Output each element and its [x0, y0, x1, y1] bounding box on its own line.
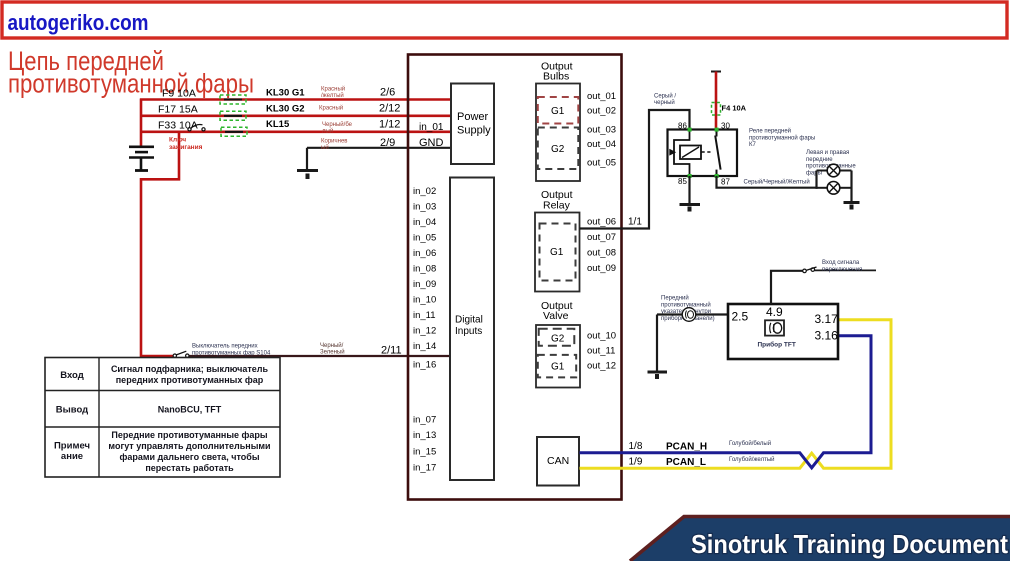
wire colour label Серый/черный	[654, 93, 676, 107]
svg-text:1/1: 1/1	[628, 217, 642, 228]
pin label in_17	[413, 463, 436, 474]
pin label in_02	[413, 186, 436, 197]
wire colour label Красный/желтый	[321, 86, 345, 100]
wire battery positive vertical	[140, 99, 143, 147]
svg-text:Зеленый: Зеленый	[320, 349, 345, 356]
svg-text:NanoBCU, TFT: NanoBCU, TFT	[158, 405, 222, 415]
Digital Inputs block	[450, 178, 494, 481]
svg-text:Relay: Relay	[543, 200, 571, 212]
fuse F33 10A	[158, 120, 247, 137]
group G1 valve	[538, 355, 576, 378]
TFT instrument box	[728, 304, 838, 359]
pin label in_01	[419, 122, 444, 133]
lamp right fog	[827, 182, 840, 195]
svg-text:in_03: in_03	[413, 202, 436, 213]
NanoBCU main box	[408, 55, 622, 500]
svg-text:Valve: Valve	[543, 310, 569, 322]
svg-text:in_06: in_06	[413, 248, 436, 259]
pin label in_05	[413, 233, 436, 244]
group G1 bulbs	[538, 97, 579, 124]
svg-text:in_13: in_13	[413, 430, 436, 441]
wire PCAN_H blue	[580, 336, 872, 468]
label relay K7	[749, 128, 815, 149]
Output Relay group	[535, 189, 580, 292]
Output Valve group	[536, 300, 580, 388]
svg-text:in_09: in_09	[413, 279, 436, 290]
site title autogeriko.com	[8, 10, 149, 35]
pin number 1/1	[628, 217, 642, 228]
svg-text:out_09: out_09	[587, 263, 616, 274]
wire TFT 2.5 to indicator and ground	[657, 315, 728, 373]
CAN block	[537, 437, 579, 486]
pin label in_04	[413, 217, 436, 228]
battery G	[129, 147, 154, 171]
svg-text:PCAN_L: PCAN_L	[666, 457, 706, 468]
pin number 1/8	[629, 441, 643, 452]
svg-text:in_11: in_11	[413, 310, 436, 321]
svg-text:Красный: Красный	[321, 86, 345, 93]
net label KL30 G2	[266, 104, 305, 115]
svg-text:ый: ый	[321, 144, 329, 151]
svg-text:Левая и правая: Левая и правая	[806, 150, 849, 156]
svg-text:in_15: in_15	[413, 447, 436, 458]
label switch signal	[822, 260, 862, 273]
pin label out_12	[587, 361, 616, 372]
svg-text:in_07: in_07	[413, 415, 436, 426]
group G1 relay	[540, 224, 576, 281]
pin label in_16	[413, 360, 436, 371]
svg-text:G1: G1	[551, 106, 565, 117]
svg-text:CAN: CAN	[547, 455, 569, 467]
svg-text:3.16: 3.16	[815, 329, 839, 343]
wire colour label Черный/белый	[322, 121, 353, 134]
svg-text:лый: лый	[322, 127, 333, 134]
svg-text:Сигнал подфарника; выключатель: Сигнал подфарника; выключатель	[111, 364, 269, 374]
fuse F9 10A	[162, 88, 246, 105]
wire KL15 (ignition feed)	[140, 131, 451, 134]
svg-text:передних противотуманных фар: передних противотуманных фар	[116, 375, 264, 385]
svg-text:Inputs: Inputs	[455, 326, 482, 337]
svg-text:переключения: переключения	[822, 267, 862, 273]
pin label in_11	[413, 310, 436, 321]
svg-text:30: 30	[721, 122, 730, 131]
table row Примечание	[54, 430, 271, 473]
svg-text:F9 10A: F9 10A	[162, 88, 196, 100]
ignition key switch on KL15	[188, 125, 205, 131]
svg-text:in_08: in_08	[413, 264, 436, 275]
group G2 valve	[539, 329, 575, 346]
indicator lamp fog	[682, 308, 696, 322]
svg-text:out_01: out_01	[587, 91, 616, 102]
svg-text:2/11: 2/11	[381, 345, 402, 357]
svg-text:out_04: out_04	[587, 139, 616, 150]
wire colour label Серый/Черный/Желтый	[744, 179, 810, 186]
wire left vertical feed to S104	[140, 178, 143, 357]
pin number 2/9	[380, 137, 395, 149]
svg-text:Ключ: Ключ	[169, 137, 186, 144]
pin label out_06	[587, 217, 616, 228]
svg-text:фарами дальнего света, чтобы: фарами дальнего света, чтобы	[119, 452, 259, 462]
wire colour label Черный/Зеленый	[320, 342, 345, 356]
relay pin 85	[678, 174, 692, 186]
svg-text:in_17: in_17	[413, 463, 436, 474]
svg-text:out_08: out_08	[587, 248, 616, 259]
svg-text:autogeriko.com: autogeriko.com	[8, 10, 149, 35]
svg-text:могут управлять дополнительным: могут управлять дополнительными	[108, 441, 270, 451]
svg-text:противотуманный: противотуманный	[661, 301, 711, 308]
ground (GND wire)	[297, 171, 318, 180]
net label PCAN_L	[666, 457, 706, 468]
svg-text:Коричнев: Коричнев	[321, 139, 347, 145]
svg-text:out_03: out_03	[587, 125, 616, 136]
svg-text:G2: G2	[551, 334, 565, 345]
svg-text:Power: Power	[457, 111, 489, 123]
svg-text:/желтый: /желтый	[321, 92, 344, 99]
svg-text:F33 10A: F33 10A	[158, 120, 198, 132]
pin label out_11	[587, 346, 615, 357]
pin label GND	[419, 137, 444, 149]
relay coil branch	[669, 130, 689, 177]
svg-text:Вывод: Вывод	[56, 405, 88, 416]
pin label out_05	[587, 158, 616, 169]
svg-text:передние: передние	[806, 157, 833, 163]
svg-text:in_02: in_02	[413, 186, 436, 197]
svg-text:2/6: 2/6	[380, 87, 395, 99]
wire ignition jog from KL15 down to switch feed	[141, 132, 179, 180]
svg-text:1/8: 1/8	[629, 441, 643, 452]
svg-text:Серый /: Серый /	[654, 93, 676, 100]
svg-text:in_01: in_01	[419, 122, 444, 133]
wire colour label Красный	[319, 105, 343, 112]
svg-text:4.9: 4.9	[766, 305, 783, 319]
svg-text:in_16: in_16	[413, 360, 436, 371]
wire lamps to ground	[850, 171, 852, 203]
pin number 1/9	[629, 457, 643, 468]
wire PCAN_L yellow	[580, 320, 892, 468]
relay pin 30	[715, 122, 731, 132]
wire lamp junction	[817, 171, 852, 189]
relay contact blade	[715, 131, 720, 175]
svg-text:out_12: out_12	[587, 361, 616, 372]
svg-text:2.5: 2.5	[732, 310, 749, 324]
Output Bulbs group	[536, 61, 580, 182]
svg-text:GND: GND	[419, 137, 444, 149]
label front fog lamps	[806, 150, 856, 176]
svg-text:out_10: out_10	[587, 331, 616, 342]
table row Вывод	[56, 405, 222, 416]
pin label out_09	[587, 263, 616, 274]
svg-text:Черный/бе: Черный/бе	[322, 121, 353, 128]
label switch S104	[192, 344, 271, 357]
wire KL30 G2 (battery feed 2)	[140, 115, 451, 118]
wire relay 85 to ground	[688, 176, 690, 205]
svg-text:1/9: 1/9	[629, 457, 643, 468]
pin label in_12	[413, 326, 436, 337]
svg-text:KL30 G2: KL30 G2	[266, 104, 305, 115]
svg-text:G1: G1	[551, 362, 565, 373]
pin label in_14	[413, 341, 436, 352]
svg-text:2/12: 2/12	[379, 103, 400, 115]
wire relay 87 to lamps	[717, 176, 818, 188]
svg-text:in_10: in_10	[413, 295, 436, 306]
relay coil K7	[680, 146, 701, 160]
svg-text:Bulbs: Bulbs	[543, 71, 569, 83]
svg-text:out_07: out_07	[587, 232, 616, 243]
pin number 1/12	[379, 119, 400, 131]
svg-text:3.17: 3.17	[815, 312, 839, 326]
wire KL30 G1 (battery feed 1)	[140, 98, 451, 101]
pin label out_04	[587, 139, 616, 150]
pin label out_01	[587, 91, 616, 102]
svg-text:G2: G2	[551, 144, 565, 155]
svg-text:Вход сигнала: Вход сигнала	[822, 260, 860, 266]
svg-text:86: 86	[678, 122, 687, 131]
info table	[45, 358, 280, 478]
svg-text:F17 15A: F17 15A	[158, 104, 198, 116]
relay K7 box	[668, 130, 738, 177]
Power Supply block	[451, 84, 494, 165]
wire colour label Голубой/желтый	[729, 456, 774, 463]
svg-text:Голубой/белый: Голубой/белый	[729, 440, 771, 447]
net label KL15	[266, 119, 290, 130]
wire TFT 4.9 to switch	[771, 271, 803, 304]
pin number 2/6	[380, 87, 395, 99]
svg-text:PCAN_H: PCAN_H	[666, 442, 707, 453]
svg-text:out_02: out_02	[587, 106, 616, 117]
svg-text:К7: К7	[749, 142, 756, 148]
net label KL30 G1	[266, 88, 305, 99]
svg-text:перестать работать: перестать работать	[145, 463, 234, 473]
wire colour label Голубой/белый	[729, 440, 771, 447]
svg-text:противотуманных фар S104: противотуманных фар S104	[192, 351, 271, 357]
label fog indicator	[661, 295, 715, 322]
relay actuation dashed link	[702, 151, 714, 153]
svg-text:Supply: Supply	[457, 125, 491, 137]
switch S104	[173, 351, 189, 357]
diagram title	[8, 46, 254, 98]
svg-text:in_12: in_12	[413, 326, 436, 337]
svg-text:Реле передней: Реле передней	[749, 128, 791, 135]
pin label in_08	[413, 264, 436, 275]
svg-text:F4 10A: F4 10A	[722, 104, 747, 113]
switch signal input	[803, 267, 876, 273]
net label PCAN_H	[666, 442, 707, 453]
pin label out_02	[587, 106, 616, 117]
pin label out_10	[587, 331, 616, 342]
pin label out_07	[587, 232, 616, 243]
pin label in_13	[413, 430, 436, 441]
wire S104 to in_14	[141, 355, 450, 357]
label Ключ зажигания	[169, 137, 203, 151]
svg-text:KL15: KL15	[266, 119, 290, 130]
wire F4 feed	[711, 72, 721, 131]
fuse F4 10A	[712, 103, 747, 116]
relay pin 87	[715, 174, 731, 187]
pin label in_07	[413, 415, 436, 426]
relay pin 86	[678, 122, 692, 132]
banner Sinotruk	[630, 517, 1010, 561]
svg-text:out_06: out_06	[587, 217, 616, 228]
svg-text:in_14: in_14	[413, 341, 436, 352]
pin number 2/11	[381, 345, 402, 357]
svg-text:Серый/Черный/Желтый: Серый/Черный/Желтый	[744, 179, 810, 186]
svg-text:Передний: Передний	[661, 295, 689, 302]
svg-text:87: 87	[721, 178, 730, 187]
svg-text:черный: черный	[654, 99, 675, 106]
group G2 bulbs	[538, 128, 579, 170]
svg-text:in_04: in_04	[413, 217, 436, 228]
pin label out_08	[587, 248, 616, 259]
pin label in_09	[413, 279, 436, 290]
table row Вход	[60, 364, 268, 385]
fuse F17 15A	[158, 104, 246, 121]
svg-text:in_05: in_05	[413, 233, 436, 244]
svg-text:G1: G1	[550, 247, 564, 258]
svg-text:Sinotruk Training Document: Sinotruk Training Document	[691, 529, 1008, 559]
pin label in_10	[413, 295, 436, 306]
svg-text:ание: ание	[61, 451, 83, 462]
svg-text:Красный: Красный	[319, 105, 343, 112]
svg-text:out_05: out_05	[587, 158, 616, 169]
fog lamp icon in TFT	[765, 320, 784, 335]
svg-text:противотуманной фары: противотуманной фары	[8, 68, 254, 98]
svg-text:out_11: out_11	[587, 346, 615, 357]
svg-text:Digital: Digital	[455, 315, 483, 326]
svg-text:Выключатель передних: Выключатель передних	[192, 344, 258, 350]
svg-text:зажигания: зажигания	[169, 144, 203, 151]
wire GND brown	[307, 148, 451, 171]
svg-text:Черный/: Черный/	[320, 342, 344, 349]
svg-text:Передние противотуманные фары: Передние противотуманные фары	[111, 430, 268, 440]
svg-text:85: 85	[678, 177, 687, 186]
pin label in_03	[413, 202, 436, 213]
svg-text:Вход: Вход	[60, 370, 84, 381]
pin number 2/12	[379, 103, 400, 115]
svg-text:противотуманной фары: противотуманной фары	[749, 134, 815, 141]
svg-text:KL30 G1: KL30 G1	[266, 88, 305, 99]
pin label out_03	[587, 125, 616, 136]
ground (relay coil)	[680, 205, 701, 212]
svg-text:Голубой/желтый: Голубой/желтый	[729, 456, 774, 463]
wire out_06 to relay pin 86	[580, 110, 690, 229]
svg-text:Примеч: Примеч	[54, 441, 90, 452]
svg-text:2/9: 2/9	[380, 137, 395, 149]
pin label in_15	[413, 447, 436, 458]
header logo box	[2, 2, 1007, 38]
lamp left fog	[827, 164, 840, 177]
svg-text:1/12: 1/12	[379, 119, 400, 131]
wire colour label Коричневый	[321, 139, 347, 151]
ground (indicator)	[648, 372, 668, 379]
pin label in_06	[413, 248, 436, 259]
svg-text:Прибор TFT: Прибор TFT	[758, 341, 796, 349]
ground (lamps)	[844, 203, 860, 210]
